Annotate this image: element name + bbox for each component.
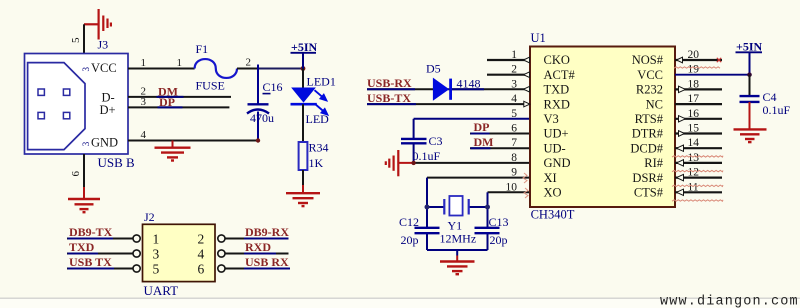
junction (256, 138, 260, 142)
junction (485, 205, 490, 210)
svg-text:XO: XO (544, 186, 562, 200)
USB B connector J3 (25, 38, 136, 170)
svg-text:USB TX: USB TX (69, 255, 112, 269)
left pin names (544, 53, 576, 199)
red marks pins 9,10 (523, 173, 528, 198)
junction (425, 205, 430, 210)
stub pin2 ACT# (487, 74, 530, 76)
wire pin3 D+ (128, 106, 229, 108)
svg-text:4: 4 (511, 93, 517, 105)
svg-text:19: 19 (688, 64, 700, 76)
capacitor C12 (415, 227, 440, 229)
svg-text:4148: 4148 (457, 77, 481, 91)
wire USB-RX to pin3 TXD (367, 88, 530, 90)
separator line (0, 297, 800, 299)
svg-text:0.1uF: 0.1uF (413, 149, 441, 163)
svg-text:J3: J3 (98, 38, 109, 52)
contact squares (38, 89, 44, 95)
wire DB9-RX (225, 238, 289, 240)
capacitor C13 (475, 227, 500, 229)
capacitor C4 (749, 75, 751, 96)
svg-text:LED: LED (306, 112, 330, 126)
wire pin6 UD+ (470, 133, 530, 135)
svg-text:DB9-RX: DB9-RX (245, 225, 289, 239)
ground (USB shell) (68, 199, 100, 212)
svg-text:RXD: RXD (544, 97, 570, 111)
svg-text:DB9-TX: DB9-TX (69, 225, 113, 239)
resistor R34 (302, 104, 304, 142)
diode D5 (433, 79, 448, 100)
capacitor C3 (401, 138, 427, 140)
junction (411, 161, 415, 165)
svg-text:UD+: UD+ (544, 127, 569, 141)
svg-text:6: 6 (511, 123, 517, 135)
svg-text:CH340T: CH340T (531, 208, 575, 222)
svg-text:5: 5 (511, 108, 517, 120)
svg-text:TXD: TXD (69, 240, 95, 254)
svg-text:RI#: RI# (644, 156, 664, 170)
svg-text:R232: R232 (636, 83, 663, 97)
svg-text:18: 18 (688, 78, 700, 90)
vertical XO (487, 192, 489, 228)
svg-text:5: 5 (70, 37, 82, 43)
svg-text:RTS#: RTS# (635, 112, 664, 126)
wire USB-TX to pin4 RXD (367, 103, 530, 105)
svg-text:Y1: Y1 (448, 219, 463, 233)
svg-text:NOS#: NOS# (632, 53, 664, 67)
svg-text:VCC: VCC (91, 61, 117, 75)
svg-text:GND: GND (91, 136, 118, 150)
svg-text:U1: U1 (531, 31, 546, 45)
svg-text:USB-RX: USB-RX (367, 76, 412, 90)
vertical XI (426, 178, 428, 228)
svg-text:9: 9 (511, 167, 517, 179)
svg-text:J2: J2 (144, 210, 155, 224)
wire fuse to +5IN node (237, 68, 259, 70)
capacitor C16 (257, 65, 259, 105)
J2 pin circles left (133, 235, 225, 272)
wire pin19 VCC to +5IN (675, 74, 750, 76)
wire pin7 UD- (470, 147, 530, 149)
svg-text:14: 14 (688, 137, 700, 149)
wire RXD (225, 253, 289, 255)
svg-text:15: 15 (688, 123, 700, 135)
wire DB9-TX (67, 238, 133, 240)
svg-text:DP: DP (474, 120, 490, 134)
red x mark pin20 (717, 58, 721, 62)
wire J3 pin5 to shield ground (83, 24, 85, 53)
svg-text:4: 4 (141, 129, 147, 141)
svg-text:12MHz: 12MHz (440, 232, 477, 246)
svg-text:0.1uF: 0.1uF (763, 103, 791, 117)
svg-text:3: 3 (81, 141, 91, 146)
svg-text:20p: 20p (490, 233, 508, 247)
svg-text:USB B: USB B (98, 155, 136, 170)
svg-text:F1: F1 (196, 42, 209, 56)
crystal Y1 (427, 206, 444, 208)
svg-text:UART: UART (144, 283, 179, 298)
svg-text:1K: 1K (309, 156, 324, 170)
svg-text:LED1: LED1 (307, 75, 336, 89)
svg-text:DM: DM (474, 135, 494, 149)
connector body (25, 54, 129, 155)
svg-text:D5: D5 (426, 62, 441, 76)
wire USB TX (67, 268, 133, 270)
USB-B plug outline (28, 63, 85, 150)
ground (R34) (286, 193, 320, 206)
svg-text:C3: C3 (429, 134, 443, 148)
svg-text:CTS#: CTS# (634, 186, 664, 200)
svg-text:11: 11 (688, 181, 699, 193)
ground (crystal) (440, 262, 475, 275)
pin arrows right (677, 57, 686, 195)
right stubs pins 20-11 (675, 60, 722, 192)
ground (USB GND) (172, 141, 174, 148)
junction (747, 72, 752, 77)
wire TXD (67, 253, 133, 255)
right pin numbers (688, 49, 700, 193)
svg-text:2: 2 (198, 231, 205, 246)
ground (shield, J3 top) (84, 9, 111, 40)
svg-text:4: 4 (198, 246, 205, 261)
svg-text:C13: C13 (489, 215, 509, 229)
svg-text:10: 10 (506, 181, 518, 193)
svg-text:3: 3 (511, 78, 517, 90)
junction (301, 66, 306, 71)
wire pin1 VCC to fuse (128, 68, 195, 70)
svg-text:7: 7 (511, 137, 517, 149)
fuse F1 (195, 59, 237, 78)
svg-text:6: 6 (70, 171, 82, 177)
svg-text:VCC: VCC (637, 68, 663, 82)
svg-text:UD-: UD- (544, 141, 566, 155)
svg-text:C16: C16 (263, 80, 283, 94)
wire pin2 D- (128, 96, 231, 98)
svg-text:17: 17 (688, 93, 700, 105)
svg-text:DCD#: DCD# (630, 141, 663, 155)
svg-text:V3: V3 (544, 112, 559, 126)
svg-text:16: 16 (688, 108, 700, 120)
svg-text:13: 13 (688, 152, 700, 164)
svg-text:GND: GND (544, 156, 571, 170)
svg-text:3: 3 (81, 67, 91, 72)
svg-text:C12: C12 (399, 215, 419, 229)
svg-text:12: 12 (688, 167, 700, 179)
stub pin1 CKO (487, 59, 530, 61)
svg-text:www.diangon.com: www.diangon.com (660, 295, 799, 308)
svg-text:D+: D+ (100, 103, 116, 117)
svg-text:5: 5 (153, 261, 160, 276)
left pin numbers (506, 49, 518, 193)
svg-text:1: 1 (511, 49, 517, 61)
svg-text:USB RX: USB RX (245, 255, 289, 269)
wire pin5 V3 to C3 (414, 118, 530, 120)
red wavy marks right (672, 67, 723, 201)
ground (C3, sideways) (386, 150, 399, 176)
svg-text:20p: 20p (401, 233, 419, 247)
svg-text:ACT#: ACT# (544, 68, 576, 82)
svg-text:R34: R34 (309, 141, 329, 155)
svg-text:470u: 470u (250, 111, 274, 125)
LED1 (302, 69, 304, 89)
svg-text:DSR#: DSR# (632, 171, 663, 185)
svg-text:2: 2 (511, 64, 517, 76)
svg-text:1: 1 (141, 57, 147, 69)
svg-text:3: 3 (141, 96, 147, 108)
svg-text:XI: XI (544, 171, 557, 185)
ground (C4) (734, 129, 767, 142)
svg-text:6: 6 (198, 261, 205, 276)
wire pin10 XO (488, 191, 531, 193)
svg-text:NC: NC (646, 97, 663, 111)
wire pin8 GND (415, 162, 530, 164)
pin arrows left (524, 57, 530, 107)
wire pin6 to ground (83, 154, 85, 187)
svg-text:1: 1 (177, 57, 183, 69)
wire pin4 GND (128, 140, 258, 142)
wire USB RX (225, 268, 289, 270)
svg-text:USB-TX: USB-TX (367, 91, 411, 105)
svg-text:8: 8 (511, 152, 517, 164)
svg-text:2: 2 (246, 57, 252, 69)
right pin names (630, 53, 663, 199)
svg-text:FUSE: FUSE (196, 79, 225, 93)
wire crystal bottom (427, 249, 488, 251)
svg-text:CKO: CKO (544, 53, 570, 67)
svg-text:3: 3 (153, 246, 160, 261)
svg-text:TXD: TXD (544, 83, 570, 97)
svg-text:20: 20 (688, 49, 700, 61)
svg-text:DTR#: DTR# (632, 127, 664, 141)
svg-text:1: 1 (153, 231, 160, 246)
svg-text:RXD: RXD (245, 240, 271, 254)
wire pin9 XI (427, 177, 530, 179)
